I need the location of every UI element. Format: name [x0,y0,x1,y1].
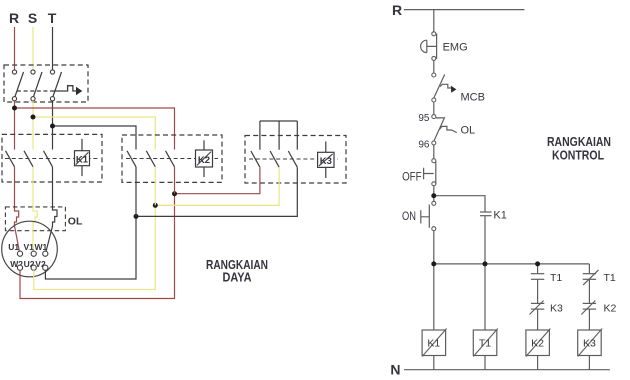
svg-text:K2: K2 [198,155,210,166]
svg-text:95: 95 [418,113,430,124]
svg-text:K2: K2 [604,303,617,315]
svg-text:OL: OL [68,216,83,228]
svg-text:OFF: OFF [402,169,422,183]
svg-text:V1: V1 [23,242,34,252]
svg-text:96: 96 [418,140,430,151]
svg-text:K3: K3 [583,338,596,350]
svg-text:T1: T1 [479,338,491,350]
svg-text:K1: K1 [76,154,89,165]
svg-text:K2: K2 [531,338,544,350]
svg-text:K1: K1 [493,210,506,222]
svg-text:MCB: MCB [461,92,485,104]
svg-text:T: T [48,10,57,26]
svg-text:OL: OL [461,125,476,137]
svg-text:K3: K3 [550,303,563,315]
svg-text:R: R [9,10,19,26]
svg-text:U1: U1 [8,242,19,252]
svg-text:EMG: EMG [443,42,468,54]
svg-text:DAYA: DAYA [223,270,253,285]
svg-text:ON: ON [402,209,416,223]
svg-text:R: R [392,2,402,18]
svg-text:K3: K3 [320,156,332,167]
svg-text:K1: K1 [427,338,440,350]
svg-text:N: N [390,362,400,378]
svg-text:KONTROL: KONTROL [552,147,604,162]
svg-text:T1: T1 [550,272,562,284]
svg-text:T1: T1 [604,272,616,284]
svg-text:W1: W1 [35,242,48,252]
svg-text:S: S [28,10,37,26]
